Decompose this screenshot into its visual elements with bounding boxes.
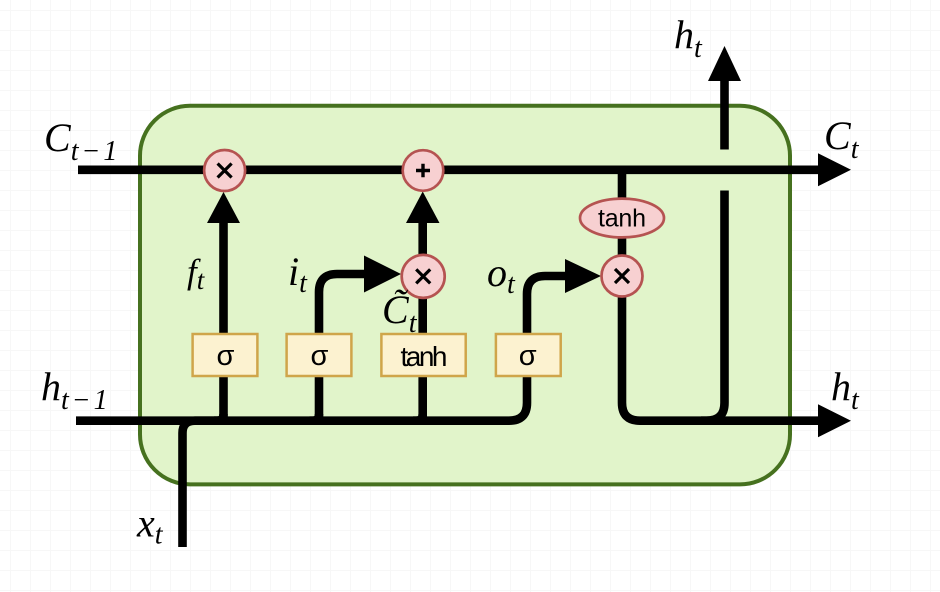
svg-text:σ: σ: [519, 340, 537, 372]
svg-text:σ: σ: [217, 340, 235, 372]
svg-text:σ: σ: [311, 340, 329, 372]
svg-text:tanh: tanh: [401, 341, 448, 372]
svg-text:tanh: tanh: [598, 205, 646, 233]
